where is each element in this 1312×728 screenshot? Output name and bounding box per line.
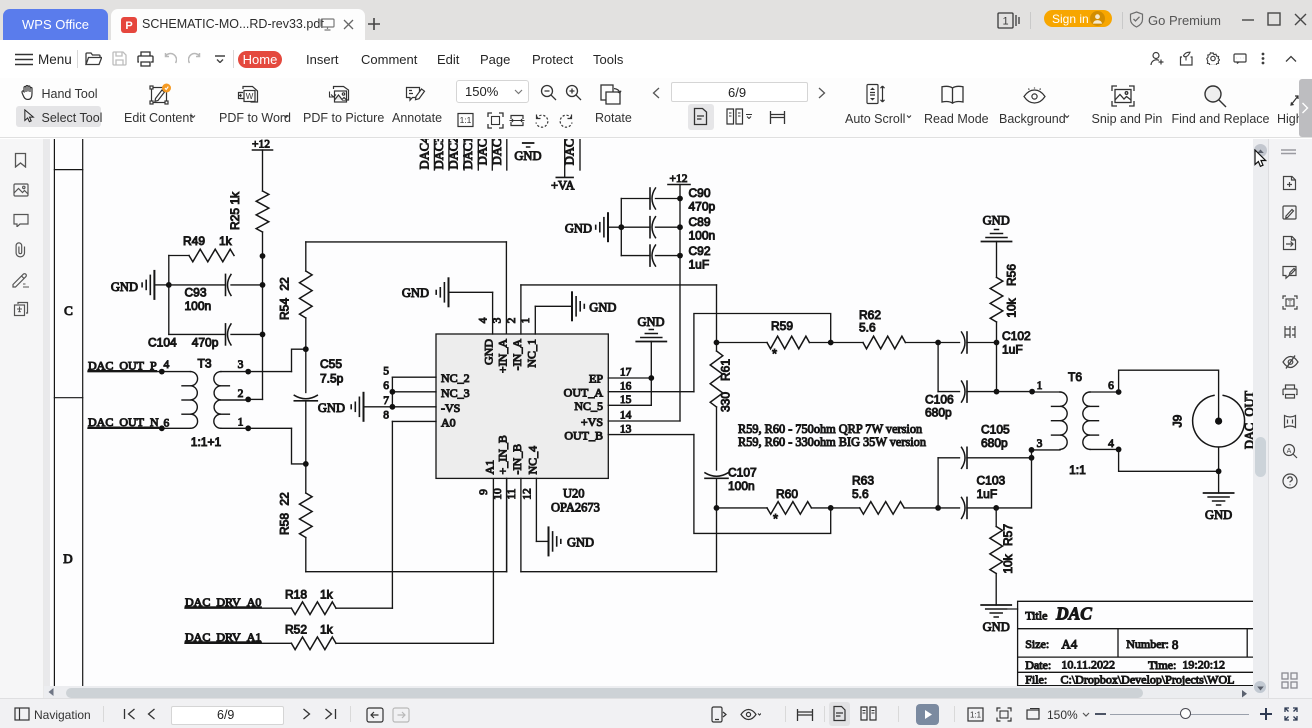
svg-text:DAC1: DAC1 xyxy=(461,139,475,169)
wire J9 shield stub xyxy=(1218,447,1220,471)
svg-text:DAC3: DAC3 xyxy=(432,139,446,169)
vertical scrollbar thumb + buttons xyxy=(1255,437,1267,477)
svg-text:NC_3: NC_3 xyxy=(441,386,470,400)
svg-text:1: 1 xyxy=(520,317,532,323)
svg-text:7: 7 xyxy=(383,395,389,407)
capacitor C92 1uF xyxy=(621,255,650,257)
svg-text:DAC_OUT_P: DAC_OUT_P xyxy=(88,359,157,373)
svg-text:EP: EP xyxy=(589,372,603,386)
svg-text:C:\Dropbox\Develop\Projects\WO: C:\Dropbox\Develop\Projects\WOL xyxy=(1061,673,1235,687)
svg-text:R57: R57 xyxy=(1001,524,1015,546)
title block border xyxy=(1018,601,1253,685)
svg-text:R58: R58 xyxy=(278,513,292,535)
resistor R57 10k xyxy=(995,508,997,527)
svg-text:Time:: Time: xyxy=(1148,658,1176,672)
node R60/R63/OUT_B junction xyxy=(828,505,834,511)
horizontal scrollbar xyxy=(44,686,1253,699)
svg-text:DAC2: DAC2 xyxy=(447,139,461,169)
svg-text:DAC: DAC xyxy=(490,139,504,165)
sheet tick xyxy=(1008,608,1018,610)
svg-text:Size:: Size: xyxy=(1025,637,1049,651)
svg-text:-IN_A: -IN_A xyxy=(510,339,524,371)
resistor R49 1k xyxy=(189,249,234,262)
svg-text:R52: R52 xyxy=(285,623,307,637)
connector J9 BNC xyxy=(1193,395,1245,447)
svg-text:GND: GND xyxy=(318,401,345,415)
wire T3 pin3 to node A2 xyxy=(221,371,292,373)
svg-text:A1: A1 xyxy=(482,460,496,475)
resistor R18 1k xyxy=(291,602,336,615)
svg-text:GND: GND xyxy=(402,286,429,300)
svg-text:1k: 1k xyxy=(320,623,334,637)
svg-text:DAC4: DAC4 xyxy=(418,139,432,169)
resistor R59 xyxy=(717,342,768,344)
capacitor C103 1uF xyxy=(938,507,959,509)
svg-text:100n: 100n xyxy=(185,299,212,313)
svg-text:C93: C93 xyxy=(185,286,207,300)
svg-text:GND: GND xyxy=(514,149,541,163)
svg-text:GND: GND xyxy=(589,301,616,315)
wire B2 to R58 xyxy=(305,464,307,493)
wire R18 to A0 pin8 xyxy=(336,607,392,609)
resistor R63 5.6 xyxy=(860,502,905,515)
wire T6 pin6 to J9 xyxy=(1119,370,1219,421)
ground GND (J9) xyxy=(1218,471,1220,493)
svg-text:T6: T6 xyxy=(1068,370,1082,384)
svg-text:GND: GND xyxy=(482,339,496,365)
svg-text:100n: 100n xyxy=(689,229,716,243)
svg-text:R59, R60 - 750ohm QRP 7W versi: R59, R60 - 750ohm QRP 7W version xyxy=(738,422,922,436)
svg-text:GND: GND xyxy=(983,214,1010,228)
svg-text:1uF: 1uF xyxy=(689,258,710,272)
wire R54 bottom xyxy=(305,318,307,349)
svg-text:A0: A0 xyxy=(441,415,456,429)
svg-text:+IN_A: +IN_A xyxy=(495,339,509,373)
svg-text:*: * xyxy=(772,346,777,361)
ground GND (NC_1) xyxy=(535,305,572,307)
wire DAC_OUT_N to T3 xyxy=(88,427,191,429)
svg-text:J9: J9 xyxy=(1171,414,1185,427)
svg-text:OUT_A: OUT_A xyxy=(564,386,604,400)
resistor R62 5.6 xyxy=(863,336,905,349)
U20 left pins 5-8 xyxy=(392,376,436,378)
wire +12 to R25 xyxy=(262,150,264,191)
svg-text:10k: 10k xyxy=(1001,553,1015,573)
svg-text:R59, R60 - 330ohm BIG 35W vers: R59, R60 - 330ohm BIG 35W version xyxy=(738,435,926,449)
wire T3 pin1 to node B2 xyxy=(221,427,292,429)
node R59/R62/OUT_A junction xyxy=(828,340,834,346)
svg-text:15: 15 xyxy=(620,394,632,406)
svg-text:OPA2673: OPA2673 xyxy=(551,501,600,515)
svg-text:DAC_OUT: DAC_OUT xyxy=(1243,390,1254,449)
svg-text:1:1: 1:1 xyxy=(970,711,982,720)
svg-text:10: 10 xyxy=(492,488,504,500)
svg-text:C102: C102 xyxy=(1002,329,1031,343)
wire C102 node to T6 pin1 xyxy=(996,343,998,392)
svg-text:1k: 1k xyxy=(320,588,334,602)
wire -IN_A feedback xyxy=(521,284,717,286)
svg-text:+12: +12 xyxy=(670,173,688,185)
svg-text:A4: A4 xyxy=(1061,636,1077,651)
node R62/C102/C106 junction xyxy=(935,340,941,346)
svg-text:22: 22 xyxy=(278,277,292,291)
schematic sheet frame xyxy=(53,139,55,687)
svg-text:NC_1: NC_1 xyxy=(524,339,538,368)
svg-text:R56: R56 xyxy=(1005,264,1019,286)
ground GND (top cut) xyxy=(523,142,534,144)
node bypass taps xyxy=(618,224,624,230)
wire R52 to A1 pin9 xyxy=(336,642,493,644)
svg-text:3: 3 xyxy=(238,359,244,371)
capacitor C107 100n xyxy=(716,407,718,470)
wire -IN_B feedback xyxy=(521,571,717,573)
svg-text:OUT_B: OUT_B xyxy=(564,428,603,442)
node -IN_A/R59/R61 junction xyxy=(714,340,720,346)
capacitor C106 680p xyxy=(937,343,939,392)
svg-text:1k: 1k xyxy=(219,234,233,248)
svg-text:1: 1 xyxy=(1002,16,1008,28)
svg-text:+12: +12 xyxy=(252,139,270,151)
node R63/C103/C105 junction xyxy=(935,505,941,511)
node C102/R56 junction xyxy=(994,340,1000,346)
svg-text:10.11.2022: 10.11.2022 xyxy=(1061,658,1115,672)
wire DAC_DRV_A1 to R52 xyxy=(185,642,291,644)
svg-text:2: 2 xyxy=(506,317,518,323)
wire DAC_DRV_A0 to R18 xyxy=(185,607,291,609)
svg-text:1: 1 xyxy=(238,417,244,429)
wire node-A vertical bus xyxy=(262,256,264,399)
svg-text:C103: C103 xyxy=(977,474,1006,488)
svg-text:3: 3 xyxy=(492,317,504,323)
svg-text:680p: 680p xyxy=(925,406,952,420)
svg-text:R49: R49 xyxy=(183,234,205,248)
svg-text:DAC: DAC xyxy=(1055,604,1092,624)
wire bypass left bus xyxy=(620,199,622,256)
svg-text:NC_5: NC_5 xyxy=(574,399,603,413)
svg-text:1:1+1: 1:1+1 xyxy=(191,435,222,449)
node C104 right junction xyxy=(260,332,266,338)
U20 pin 2 riser xyxy=(520,285,522,334)
svg-text:+_IN_B: +_IN_B xyxy=(496,435,510,474)
svg-text:R18: R18 xyxy=(285,588,307,602)
svg-text:16: 16 xyxy=(620,380,632,392)
transformer T3 secondary winding xyxy=(214,372,221,429)
svg-text:C92: C92 xyxy=(689,244,711,258)
svg-text:4: 4 xyxy=(164,359,170,371)
svg-text:DAC_OUT_N: DAC_OUT_N xyxy=(88,415,159,429)
svg-text:-VS: -VS xyxy=(441,401,460,415)
svg-text:11: 11 xyxy=(506,488,518,499)
svg-text:4: 4 xyxy=(1108,438,1114,450)
svg-text:A: A xyxy=(1287,448,1292,455)
wire R54 top to +IN_A xyxy=(305,242,307,271)
svg-text:2: 2 xyxy=(238,388,244,400)
wire +VS to +12 xyxy=(679,185,681,422)
wire R25 to node xyxy=(262,232,264,256)
resistor R25 1k xyxy=(256,191,269,232)
svg-text:8: 8 xyxy=(1172,637,1179,652)
svg-text:1: 1 xyxy=(1037,380,1043,392)
svg-text:C107: C107 xyxy=(728,466,757,480)
wire T6 pin4 to shield xyxy=(1119,449,1219,471)
svg-text:W: W xyxy=(246,92,254,101)
svg-text:-IN_B: -IN_B xyxy=(510,444,524,475)
svg-text:Title: Title xyxy=(1025,609,1047,623)
svg-text:GND: GND xyxy=(565,222,592,236)
wire R49 left leg xyxy=(169,255,189,257)
node A2 junction xyxy=(303,346,309,352)
svg-text:C105: C105 xyxy=(981,423,1010,437)
svg-text:5.6: 5.6 xyxy=(859,321,876,335)
svg-text:P: P xyxy=(125,20,132,32)
U20 bottom pins 9-12 xyxy=(506,478,508,571)
svg-text:R63: R63 xyxy=(852,474,874,488)
svg-text:19:20:12: 19:20:12 xyxy=(1182,658,1225,672)
svg-text:U20: U20 xyxy=(563,487,585,501)
resistor R58 22 xyxy=(300,493,313,538)
capacitor C102 1uF xyxy=(938,342,959,344)
wire DAC_OUT_P to T3 xyxy=(88,371,191,373)
capacitor C105 680p xyxy=(937,458,939,508)
svg-text:12: 12 xyxy=(521,488,533,500)
svg-text:5.6: 5.6 xyxy=(852,487,869,501)
svg-text:100n: 100n xyxy=(728,479,755,493)
svg-text:14: 14 xyxy=(620,410,632,422)
node R60/C107 junction xyxy=(714,505,720,511)
svg-text:680p: 680p xyxy=(981,436,1008,450)
wire OUT_B routing xyxy=(694,435,831,534)
svg-text:Date:: Date: xyxy=(1025,658,1051,672)
svg-text:C: C xyxy=(64,303,73,318)
capacitor C93 100n xyxy=(169,284,225,286)
svg-text:5: 5 xyxy=(383,366,389,378)
transformer T3 primary winding xyxy=(191,372,198,429)
node EP junction xyxy=(648,375,654,381)
svg-text:330: 330 xyxy=(719,392,733,412)
wire OUT_A to R59/R62 node xyxy=(694,314,831,392)
wire C103 node to T6 pin3 xyxy=(996,458,1031,508)
wire R58 to +IN_B xyxy=(305,538,307,572)
capacitor C90 470p xyxy=(621,198,650,200)
svg-text:+VS: +VS xyxy=(581,415,603,429)
svg-text:1:1: 1:1 xyxy=(1069,463,1086,477)
mouse cursor xyxy=(1254,149,1267,169)
svg-text:1uF: 1uF xyxy=(1002,343,1023,357)
svg-text:C90: C90 xyxy=(689,186,711,200)
svg-text:+VA: +VA xyxy=(551,178,575,192)
svg-text:3: 3 xyxy=(1037,438,1043,450)
svg-text:DAC: DAC xyxy=(476,139,490,165)
svg-text:R54: R54 xyxy=(278,298,292,320)
svg-text:GND: GND xyxy=(567,536,594,550)
svg-text:GND: GND xyxy=(983,620,1010,634)
svg-text:File:: File: xyxy=(1025,673,1047,687)
svg-text:T: T xyxy=(1288,300,1292,307)
svg-text:6: 6 xyxy=(1108,380,1114,392)
resistor R60 xyxy=(717,507,768,509)
U20 pin 4 GND riser xyxy=(492,292,494,334)
svg-text:R25 1k: R25 1k xyxy=(228,191,242,230)
svg-text:GND: GND xyxy=(637,315,664,329)
U20 pin 1 riser xyxy=(534,306,536,334)
svg-text:9: 9 xyxy=(478,489,490,495)
svg-text:NC_2: NC_2 xyxy=(441,371,470,385)
svg-text:4: 4 xyxy=(478,317,490,323)
node B2 junction xyxy=(303,461,309,467)
svg-text:10k: 10k xyxy=(1005,297,1019,317)
resistor R52 1k xyxy=(291,637,336,650)
op-amp U20 OPA2673 body xyxy=(436,334,608,478)
node C93 right junction xyxy=(260,282,266,288)
resistor R56 10k xyxy=(996,242,998,278)
svg-text:DAC_DRV_A0: DAC_DRV_A0 xyxy=(185,595,261,609)
ground GND (NC_4 pin12) xyxy=(536,540,548,542)
svg-text:*: * xyxy=(773,511,778,526)
svg-text:470p: 470p xyxy=(689,200,716,214)
ground GND (R57) xyxy=(981,604,1011,606)
svg-text:NC_4: NC_4 xyxy=(525,446,539,475)
svg-text:6: 6 xyxy=(383,380,389,392)
node C103/R57 junction xyxy=(993,505,999,511)
U20 right pins 13-17 xyxy=(608,377,651,379)
svg-text:7.5p: 7.5p xyxy=(320,372,344,386)
capacitor C55 7.5p xyxy=(305,349,307,392)
resistor R61 330 xyxy=(716,343,718,352)
svg-text:C106: C106 xyxy=(925,393,954,407)
transformer T6 secondary winding xyxy=(1083,392,1090,449)
svg-text:GND: GND xyxy=(1205,508,1232,522)
capacitor C89 100n xyxy=(621,226,650,228)
resistor R54 22 xyxy=(300,271,313,318)
node C93 left junction xyxy=(166,282,172,288)
svg-text:R60: R60 xyxy=(776,487,798,501)
node C105/T6 pin3 junction xyxy=(1029,455,1035,461)
svg-text:DAC_DRV_A1: DAC_DRV_A1 xyxy=(185,630,261,644)
node shield junction xyxy=(1216,468,1222,474)
svg-text:R59: R59 xyxy=(771,319,793,333)
svg-text:1:1: 1:1 xyxy=(460,115,472,125)
svg-text:T3: T3 xyxy=(197,357,211,371)
node R25/R49 junction xyxy=(260,253,266,259)
svg-text:C89: C89 xyxy=(689,215,711,229)
svg-text:8: 8 xyxy=(383,410,389,422)
svg-text:17: 17 xyxy=(620,366,632,378)
svg-text:C104: C104 xyxy=(148,336,177,350)
svg-text:Number:: Number: xyxy=(1126,637,1169,651)
svg-text:C55: C55 xyxy=(320,357,342,371)
svg-text:470p: 470p xyxy=(192,336,219,350)
svg-text:GND: GND xyxy=(111,280,138,294)
svg-text:22: 22 xyxy=(278,492,292,506)
svg-text:R61: R61 xyxy=(719,359,733,381)
svg-text:D: D xyxy=(63,551,72,566)
svg-text:13: 13 xyxy=(620,423,632,435)
svg-text:1uF: 1uF xyxy=(977,487,998,501)
capacitor C104 470p xyxy=(169,333,225,335)
